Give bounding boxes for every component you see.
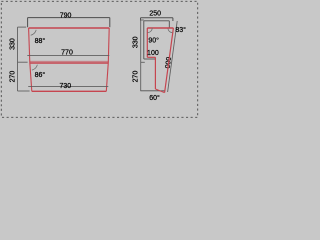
red part right edge upper: [107, 28, 110, 63]
svg-text:60°: 60°: [149, 94, 160, 102]
330/270 vertical dimension line: [17, 27, 19, 91]
88deg angle arc: [31, 30, 37, 35]
red part top edge: [29, 27, 110, 29]
330/270 vertical dimension line (right drawing): [140, 20, 142, 91]
blank step edge: [144, 58, 156, 60]
blank top-right corner stub: [109, 18, 111, 28]
red lower-left edge: [154, 57, 156, 89]
svg-text:330: 330: [133, 36, 140, 48]
red part left edge (90deg): [146, 28, 148, 57]
dashed page border: [1, 1, 197, 117]
svg-text:90°: 90°: [148, 37, 159, 45]
red part left edge lower (86deg): [30, 63, 32, 92]
blank top-left corner stub: [27, 18, 29, 28]
250 dim left hook: [140, 18, 142, 21]
blank left edge: [143, 21, 145, 59]
red bottom edge (60deg corner): [155, 89, 164, 93]
250 dim right hook: [172, 18, 174, 21]
83deg angle arc: [168, 29, 173, 33]
svg-text:270: 270: [10, 71, 17, 83]
blank bottom edge: [140, 90, 164, 92]
svg-text:790: 790: [60, 12, 72, 19]
svg-text:330: 330: [10, 38, 17, 50]
svg-text:83°: 83°: [175, 26, 186, 34]
730 dimension line: [28, 85, 108, 87]
blank top edge / 790 dimension line: [28, 17, 110, 19]
mid hook: [141, 61, 145, 63]
330/270 mid extension hook: [18, 61, 28, 63]
svg-text:730: 730: [59, 83, 71, 90]
red slanted right edge (83deg): [165, 28, 174, 93]
red part top edge (right drawing): [147, 27, 173, 29]
770 dimension line: [27, 55, 109, 57]
250 dimension line: [141, 17, 173, 19]
svg-text:100: 100: [147, 50, 159, 57]
red part mid edge (upper, part1 bottom): [30, 60, 109, 62]
red part mid edge (lower, part2 top): [30, 62, 109, 64]
600 dimension line (slanted): [168, 21, 178, 92]
blank top edge: [144, 20, 170, 22]
red step edge: [147, 56, 155, 58]
red part bottom edge: [32, 90, 107, 92]
svg-text:250: 250: [149, 11, 161, 18]
top hook: [141, 19, 144, 21]
86deg angle arc: [32, 65, 38, 70]
svg-text:600: 600: [163, 56, 171, 69]
blank right stub: [168, 21, 170, 28]
red part left edge upper (88deg): [29, 28, 30, 63]
svg-text:88°: 88°: [35, 37, 46, 45]
svg-text:770: 770: [61, 50, 73, 57]
330 top extension hook: [18, 26, 27, 28]
svg-text:86°: 86°: [35, 71, 46, 79]
svg-text:270: 270: [133, 71, 140, 83]
red part right edge lower: [106, 63, 108, 92]
270 bottom extension hook: [18, 90, 30, 92]
90deg angle arc: [148, 28, 153, 33]
